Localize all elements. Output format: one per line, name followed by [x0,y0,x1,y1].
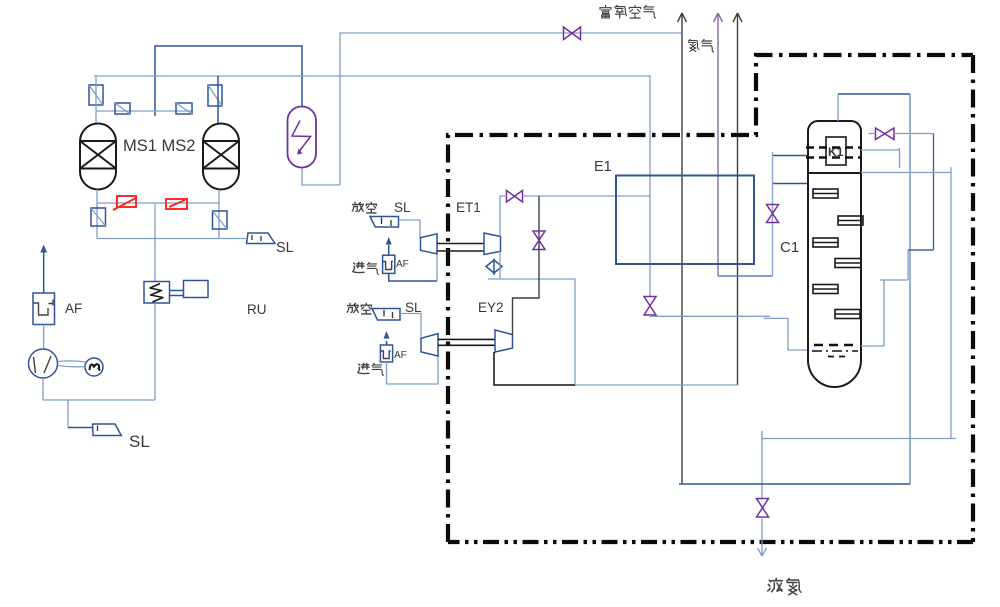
turbine ET1 (right trapezoid) [484,233,501,255]
wire EY2 turbine outlet black [494,352,575,385]
arrow air intake (blue up) [40,245,47,294]
valve purple hourglass (x539) [533,231,545,250]
boundary cold box [448,55,973,542]
svg-text:SL: SL [405,300,422,315]
RU motor box [184,281,209,298]
label 进气 (ET1) [353,262,379,274]
arrow up third vent (gray) [733,13,742,385]
silencer SL bottom [93,424,122,436]
wire bottom horizontal y400 [43,399,155,401]
wire top dark-blue header MS1-MS2 to heater [155,46,302,116]
wire oxygen-rich air line y33 [340,33,681,185]
label 氮气 [688,39,713,52]
valve oxygen-rich air (purple bowtie) [564,27,581,40]
liquid level dashes [812,345,858,357]
wire E1 bottom to column bottom feed [650,315,809,350]
turbine EY2 [495,330,513,352]
wire y385 light blue to vent line [575,384,738,386]
column C1 body [808,173,861,387]
wire AF to blower [43,325,45,350]
wire RU to bottom [154,303,156,400]
wire heater bottom connection [302,168,340,186]
svg-text:AF: AF [65,301,82,316]
svg-text:AF: AF [396,259,409,270]
valve purple hourglass below E1 [644,297,656,316]
wire MS2 inlet drop [217,76,219,124]
svg-text:AF: AF [394,350,407,361]
wire bottom product vertical with valve [761,431,763,498]
tray 6 [835,310,860,319]
arrow liquid nitrogen outlet [758,517,767,556]
vessel MS2 molecular sieve [203,124,239,190]
wire black from valve line down through purple valve [513,196,540,335]
svg-text:E1: E1 [594,159,612,175]
silencer SL (MS area) [247,233,276,244]
wire nitrogen y276 [718,275,773,277]
wire K1 valve to right and down-step to column bottom [894,133,934,135]
valve purple hourglass nitrogen [767,205,779,223]
wire small-valve bus y111 [96,110,193,112]
valve red regeneration 2 [166,199,187,209]
tray 1 [813,189,838,198]
wire light-blue main bus y76 to E1 [94,76,650,297]
wire cap right side y150 [861,148,900,168]
compressor EY2 [421,334,438,356]
label 放空 (ET1) [352,202,376,213]
valve top MS1 inlet [89,85,103,105]
svg-text:RU: RU [247,302,267,317]
wire nitrogen to body dark blue [773,183,809,185]
arrow up oxygen-rich air (gray) [678,13,687,484]
RU motor link [170,291,184,296]
label 富氧空气 [600,5,656,18]
wire ET1 AF to compressor [389,273,437,281]
wire nitrogen to cap dark blue [773,155,809,157]
blower circle [29,349,58,378]
tray 5 [813,285,838,294]
heater RU coil box [144,282,170,304]
arrow up nitrogen product (purple line) [714,13,723,276]
valve purple hourglass liquid nitrogen [757,499,769,518]
svg-text:C1: C1 [780,239,799,256]
vessel MS1 molecular sieve [80,124,116,190]
label 液氮 [768,578,801,594]
wire silencer to ET1 compressor [399,220,421,238]
wire ET1 turbine outlet [488,251,575,385]
tray 2 [838,216,863,225]
valve small equalization 1 [115,103,130,114]
wire column right y172 to far right [861,167,951,439]
shaft ET1 [437,244,484,252]
filter AF main [33,293,55,325]
wire valve to E1 y196 [523,195,651,197]
tray 3 [813,238,838,247]
shaft EY2 [438,339,495,345]
silencer EY2 vent [372,309,400,321]
valve purple bowtie ET1 inlet [507,191,523,203]
heater vessel purple (electric) [288,107,317,168]
svg-text:ET1: ET1 [456,200,481,215]
K1 dashed boundary lines [806,148,862,158]
tray 4 [835,259,861,268]
compressor ET1 (left trapezoid) [421,234,438,254]
wire cap top riser [837,95,839,121]
valve purple bowtie K1 gas [876,128,895,140]
valve small equalization 2 [176,103,192,114]
wire K1 valve stub left [869,133,876,135]
wire long vertical x910 [909,94,911,484]
wire drop to SL bottom silencer [67,400,69,428]
svg-text:SL: SL [394,200,411,215]
wire bottom bus y238 to silencer [97,238,246,240]
valve MS2 outlet bottom [213,211,228,229]
wire MS1 bottom drop [96,190,98,239]
wire through blower down [42,378,44,400]
wire MS1 inlet drop [95,76,97,124]
valve red regeneration 1 [113,196,136,210]
arrow up at ET1 AF [386,237,392,255]
svg-text:SL: SL [276,240,294,256]
valve top MS2 inlet [208,85,222,106]
wire silencer to EY2 compressor [400,314,421,339]
column C1 cap [808,121,861,173]
valve MS1 outlet bottom [91,208,106,226]
wire nitrogen vertical with valve [772,152,774,276]
wire regeneration center drop x155 [154,203,156,281]
heat exchanger E1 [616,176,754,265]
wire ET1 inlet from valve [500,196,507,237]
K1 condenser box [826,137,846,165]
label 进气 (EY2) [358,363,384,375]
wire MS2 bottom drop [218,190,220,239]
wire EY2 AF to compressor [387,356,439,384]
wire bottom dark blue y484 [679,483,910,485]
filter AF ET1 [383,255,395,273]
wire red-valve regeneration bus y203 [97,202,219,204]
svg-text:SL: SL [129,432,150,451]
svg-text:EY2: EY2 [478,300,504,315]
silencer ET1 vent [370,217,399,228]
wire right horizontal y438 [762,438,956,440]
label 放空 (EY2) [347,303,371,314]
filter AF EY2 [380,345,392,362]
butterfly valve below ET1 turbine [486,259,502,276]
svg-text:MS1 MS2: MS1 MS2 [123,137,195,155]
arrow up at EY2 AF [384,331,390,345]
motor circle with M [58,358,104,376]
